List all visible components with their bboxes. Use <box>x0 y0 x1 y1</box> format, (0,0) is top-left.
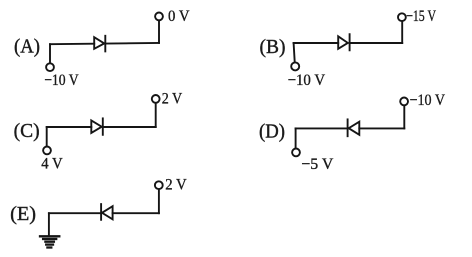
wire <box>294 42 339 44</box>
svg-text:−10 V: −10 V <box>44 72 79 89</box>
diode D2 (circuit B) <box>338 34 349 50</box>
wire <box>296 127 348 129</box>
wire <box>401 22 403 43</box>
diode D4 (circuit D, pointing left) <box>348 119 360 136</box>
wire <box>48 213 50 235</box>
svg-text:(D): (D) <box>259 120 285 142</box>
wire <box>158 190 160 214</box>
wire <box>49 212 101 214</box>
wire <box>294 43 295 62</box>
wire <box>158 21 160 43</box>
wire <box>46 127 48 146</box>
terminal -5 V (circuit D input) <box>292 149 300 157</box>
wire <box>105 42 159 45</box>
wire <box>403 106 405 128</box>
terminal -15 V (circuit B output) <box>398 13 406 21</box>
terminal -10 V (circuit D output) <box>400 98 408 106</box>
terminal -10 V (circuit A input) <box>46 63 54 71</box>
wire <box>47 126 92 128</box>
wire <box>50 43 94 46</box>
wire <box>103 126 156 128</box>
svg-text:(E): (E) <box>10 203 36 225</box>
terminal 2 V (circuit C output) <box>152 95 160 103</box>
svg-text:0 V: 0 V <box>168 8 190 25</box>
svg-text:4 V: 4 V <box>41 156 63 173</box>
diode D3 (circuit C) <box>91 118 103 134</box>
wire <box>350 42 403 44</box>
terminal 4 V (circuit C input) <box>43 147 51 155</box>
diode D1 (circuit A) <box>94 36 105 52</box>
wire <box>49 44 51 62</box>
terminal -10 V (circuit B input) <box>291 62 299 70</box>
svg-text:−10 V: −10 V <box>410 92 446 109</box>
terminal 0 V (circuit A output) <box>155 13 163 21</box>
diode D5 (circuit E, pointing left) <box>101 204 113 220</box>
wire <box>359 127 404 129</box>
svg-text:−5 V: −5 V <box>301 156 333 173</box>
wire <box>155 103 157 127</box>
wire <box>113 212 159 214</box>
terminal 2 V (circuit E output) <box>155 181 163 189</box>
svg-text:2 V: 2 V <box>165 176 187 193</box>
svg-text:−10 V: −10 V <box>288 72 326 89</box>
svg-text:(A): (A) <box>14 35 40 57</box>
ground <box>40 236 59 247</box>
wire <box>295 128 297 147</box>
svg-text:2 V: 2 V <box>162 91 183 108</box>
svg-text:−15 V: −15 V <box>406 8 436 25</box>
svg-text:(B): (B) <box>260 36 286 58</box>
svg-text:(C): (C) <box>14 120 40 142</box>
